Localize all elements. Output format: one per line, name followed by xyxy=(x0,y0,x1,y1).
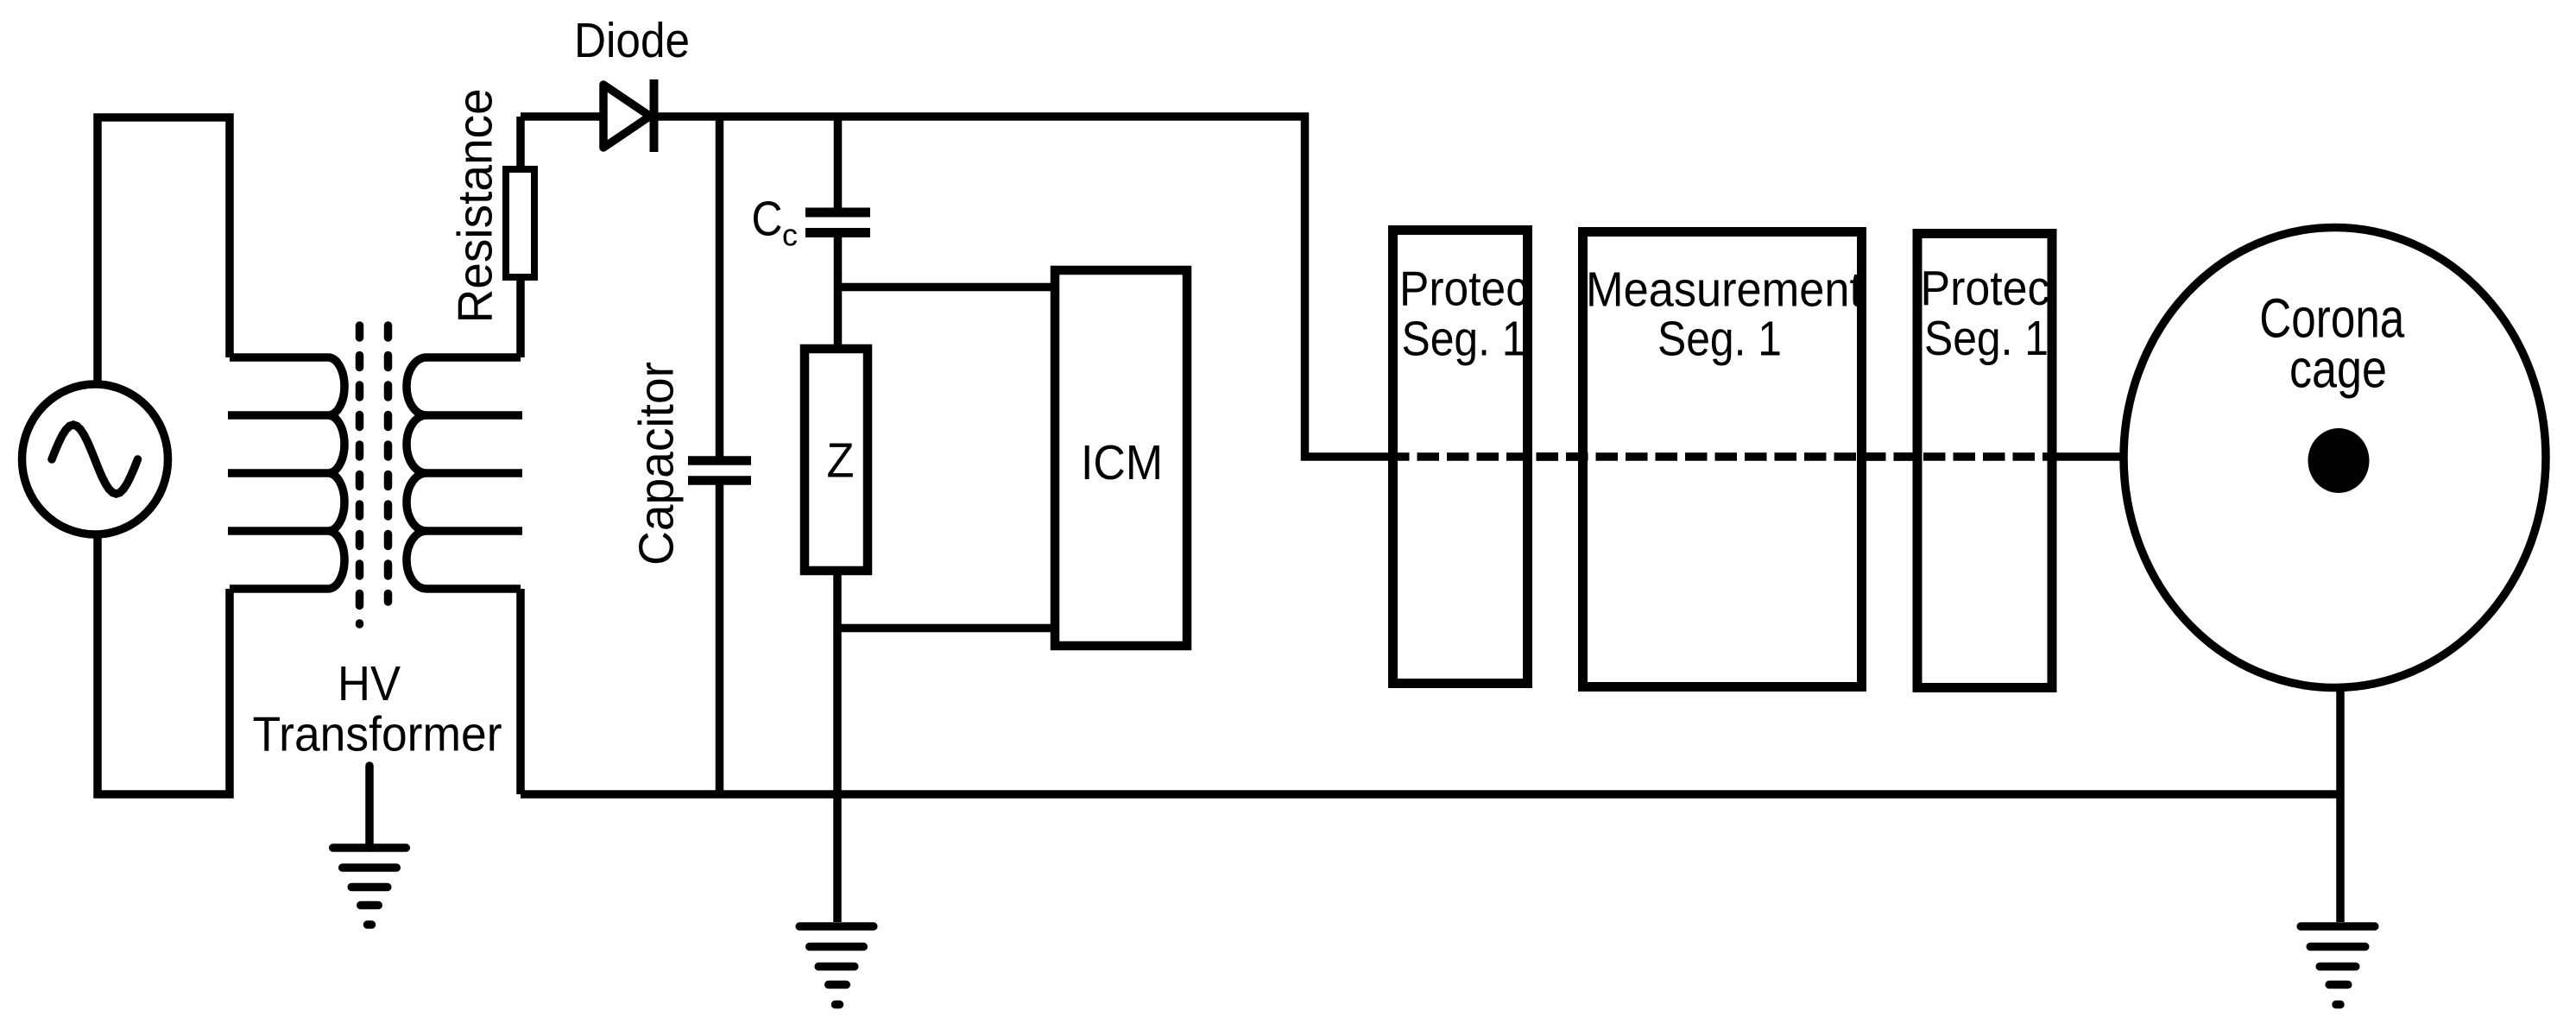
svg-text:Transformer: Transformer xyxy=(253,707,502,762)
svg-text:Resistance: Resistance xyxy=(448,88,503,323)
svg-text:ICM: ICM xyxy=(1081,435,1163,490)
svg-text:Protec: Protec xyxy=(1399,262,1528,317)
svg-text:HV: HV xyxy=(338,656,401,711)
svg-text:Z: Z xyxy=(827,433,855,489)
svg-text:Seg. 1: Seg. 1 xyxy=(1402,312,1526,367)
svg-text:Capacitor: Capacitor xyxy=(629,362,685,565)
svg-text:Seg. 1: Seg. 1 xyxy=(1924,311,2049,366)
svg-text:Measurement: Measurement xyxy=(1586,262,1862,318)
svg-text:cage: cage xyxy=(2289,340,2387,400)
svg-text:Diode: Diode xyxy=(574,13,690,68)
svg-text:Seg. 1: Seg. 1 xyxy=(1657,312,1782,367)
svg-text:c: c xyxy=(782,218,798,253)
svg-text:C: C xyxy=(752,192,783,247)
svg-text:Protec: Protec xyxy=(1921,261,2050,316)
